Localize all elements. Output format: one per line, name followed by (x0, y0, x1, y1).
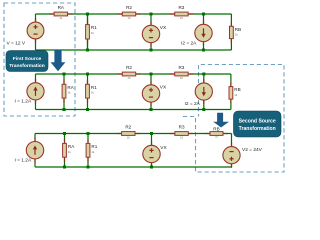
wire row1 R1 branch (87, 14, 89, 50)
resistor R1 (vertical) (86, 134, 90, 168)
svg-text:V2 = 24V: V2 = 24V (242, 147, 263, 153)
node row3 VX top (150, 132, 153, 135)
node row1 I2 bottom (202, 49, 205, 52)
wire row2 VX branch (150, 74, 152, 110)
resistor RA (vertical) (62, 74, 66, 110)
current source I2 row1 (195, 20, 212, 45)
svg-text:R3: R3 (179, 125, 185, 130)
svg-text:V = 12 V: V = 12 V (7, 41, 26, 47)
svg-text:R3: R3 (178, 5, 184, 10)
svg-text:10: 10 (128, 76, 131, 80)
resistor RB (vertical) (229, 74, 233, 110)
node row2 VX top (150, 73, 153, 76)
node row2 RA top (63, 73, 66, 76)
dashed highlight box around first transformation (V1+RA sections) (4, 3, 75, 116)
resistor R3 (horizontal) (170, 132, 193, 136)
wire row3 VX branch (151, 134, 153, 168)
current source I1 row2 (27, 79, 44, 104)
callout box: Second Source Transformation (234, 111, 282, 137)
block arrow for second transformation (213, 113, 229, 128)
voltage source VX (143, 141, 160, 166)
node row1 VX bottom (150, 49, 153, 52)
svg-text:10: 10 (127, 136, 130, 140)
node row2 R1 top (86, 73, 89, 76)
svg-text:10: 10 (128, 16, 131, 20)
svg-text:10: 10 (180, 76, 183, 80)
voltage source VX (142, 21, 159, 46)
svg-text:RA: RA (58, 5, 65, 10)
svg-text:I = 1.2A: I = 1.2A (15, 99, 32, 105)
svg-text:I = 1.2A: I = 1.2A (15, 158, 32, 164)
svg-text:I2 = 2A: I2 = 2A (181, 40, 197, 46)
svg-text:RB: RB (234, 87, 240, 92)
svg-text:I2 = 2A: I2 = 2A (185, 101, 201, 107)
resistor R3 (horizontal) (170, 72, 193, 76)
resistor R2 (horizontal) (117, 132, 140, 136)
wire row3 bottom (35, 166, 232, 168)
svg-text:Second Source: Second Source (239, 118, 276, 124)
node row3 RA top (63, 132, 66, 135)
svg-text:R1: R1 (91, 85, 97, 90)
wire row1 VX branch (150, 14, 152, 50)
node row3 RA bottom (63, 166, 66, 169)
svg-text:VX: VX (160, 25, 167, 31)
svg-text:First Source: First Source (13, 56, 42, 62)
resistor RA (horizontal) (49, 12, 72, 16)
resistor R1 (vertical) (86, 74, 90, 110)
wire row2 top (36, 73, 231, 75)
resistor R2 (horizontal) (117, 12, 140, 16)
resistor R2 (horizontal) (117, 72, 140, 76)
svg-text:10: 10 (180, 16, 183, 20)
node row1 I2 top (202, 13, 205, 16)
svg-text:Transformation: Transformation (239, 126, 276, 132)
svg-text:R2: R2 (126, 65, 132, 70)
svg-text:R2: R2 (125, 125, 131, 130)
wire row3 top (35, 133, 232, 135)
resistor R1 (vertical) (86, 14, 90, 50)
resistor RB (horizontal) (205, 132, 228, 136)
current source I2 row2 (195, 79, 212, 104)
voltage source V1 (27, 18, 44, 43)
voltage source V2 (223, 143, 240, 168)
resistor R3 (horizontal) (170, 12, 193, 16)
svg-text:R1: R1 (91, 25, 97, 30)
svg-text:R2: R2 (126, 5, 132, 10)
wire row2 left branch (35, 74, 37, 110)
svg-text:RB: RB (213, 126, 219, 131)
node row1 R1 top (86, 13, 89, 16)
block arrow for first transformation (51, 50, 66, 71)
svg-text:RB: RB (235, 27, 241, 32)
node row3 R1 top (87, 132, 90, 135)
wire row3 right branch (231, 134, 233, 168)
callout box: First Source Transformation (6, 51, 48, 72)
wire row3 left branch (34, 134, 36, 168)
dashed highlight box around second transformation (I2+RB / RB+V2 sections) (183, 65, 284, 173)
node row2 I2 top (202, 73, 205, 76)
svg-text:VX: VX (160, 84, 167, 90)
svg-text:R3: R3 (178, 65, 184, 70)
wire row1 left branch (35, 14, 37, 50)
wire row2 I2 branch (203, 74, 205, 110)
node row2 I2 bottom (202, 108, 205, 111)
voltage source VX (142, 81, 159, 106)
node row1 VX top (150, 13, 153, 16)
svg-text:RA: RA (67, 85, 74, 90)
wire row1 I2 branch (203, 14, 205, 50)
svg-text:VX: VX (160, 145, 167, 151)
current source I1 row3 (26, 138, 43, 163)
resistor RB (vertical) (230, 14, 234, 50)
svg-text:10: 10 (180, 136, 183, 140)
svg-text:RA: RA (68, 144, 75, 149)
node row3 VX bottom (150, 166, 153, 169)
wire row2 bottom (36, 109, 231, 111)
node row2 RA bottom (63, 108, 66, 111)
node row3 R1 bottom (87, 166, 90, 169)
node row2 VX bottom (150, 108, 153, 111)
node row1 R1 bottom (86, 49, 89, 52)
svg-text:R1: R1 (91, 144, 97, 149)
resistor RA (vertical) (63, 134, 67, 168)
node row2 R1 bottom (86, 108, 89, 111)
wire row1 top (36, 13, 232, 15)
wire row1 bottom (36, 49, 232, 51)
svg-text:Transformation: Transformation (9, 63, 45, 69)
